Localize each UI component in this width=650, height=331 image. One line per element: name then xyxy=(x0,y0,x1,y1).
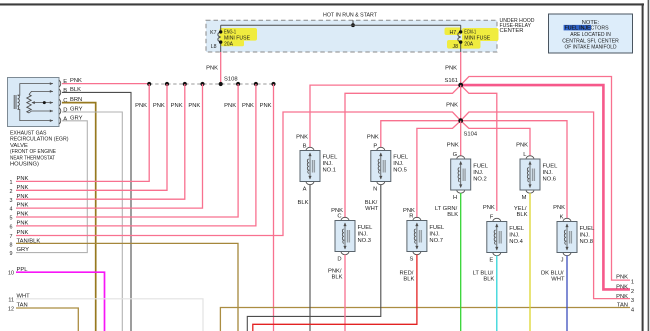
svg-text:H: H xyxy=(453,195,457,201)
wire PNK dot6 to terminal 5 xyxy=(16,84,238,217)
page right border xyxy=(642,3,644,331)
wire EGR A GRY to terminal 9 xyxy=(16,121,87,253)
svg-text:C: C xyxy=(337,213,341,219)
node S104 xyxy=(458,118,463,123)
svg-text:NO.1: NO.1 xyxy=(323,167,337,173)
svg-text:1: 1 xyxy=(10,180,13,186)
page top border xyxy=(0,3,644,5)
svg-text:D: D xyxy=(63,108,67,114)
svg-text:P: P xyxy=(373,143,377,149)
svg-text:FUEL: FUEL xyxy=(358,225,374,231)
label EXHAUST GAS RECIRCULATION (EGR) VALVE xyxy=(10,131,69,168)
svg-text:A: A xyxy=(303,187,307,193)
wire WHT terminal 11 xyxy=(16,299,203,331)
node S108 junction dots xyxy=(147,82,276,86)
fuel injector NO.3 xyxy=(335,217,355,254)
svg-text:NEAR THERMOSTAT: NEAR THERMOSTAT xyxy=(10,156,55,162)
wire DK BLU/WHT injector NO.8 down xyxy=(566,256,568,331)
svg-text:NO.8: NO.8 xyxy=(580,239,594,245)
wire S161 to NO.1 feed xyxy=(310,85,461,147)
wire TAN terminal 12 xyxy=(16,308,78,331)
svg-text:CENTRAL SFI, CENTER: CENTRAL SFI, CENTER xyxy=(562,38,619,44)
svg-text:PNK: PNK xyxy=(224,103,236,109)
svg-text:PNK: PNK xyxy=(17,221,29,227)
svg-text:PNK: PNK xyxy=(616,294,628,300)
wire hot feed stub xyxy=(352,20,354,25)
wire PNK/BLK injector NO.3 down xyxy=(344,255,346,331)
fuel injector NO.8 xyxy=(557,218,577,255)
svg-text:S108: S108 xyxy=(224,77,238,83)
svg-text:PNK: PNK xyxy=(516,143,528,149)
svg-text:FUEL: FUEL xyxy=(323,154,339,160)
svg-text:FUEL: FUEL xyxy=(580,226,596,232)
svg-text:BLK: BLK xyxy=(483,277,494,283)
svg-text:WHT: WHT xyxy=(551,277,565,283)
wire PNK dot7 to terminal 6 xyxy=(16,84,256,226)
highlight ENG-1 fuse xyxy=(220,28,258,41)
svg-text:BLK: BLK xyxy=(403,277,414,283)
svg-text:ARE LOCATED IN: ARE LOCATED IN xyxy=(570,32,611,38)
svg-text:INJ.: INJ. xyxy=(580,233,591,239)
svg-text:PNK: PNK xyxy=(171,103,183,109)
svg-text:2: 2 xyxy=(631,289,634,295)
svg-text:INJ.: INJ. xyxy=(509,233,520,239)
svg-text:PNK: PNK xyxy=(17,203,29,209)
svg-text:6: 6 xyxy=(10,225,13,231)
svg-text:(FRONT OF ENGINE: (FRONT OF ENGINE xyxy=(10,149,56,155)
svg-text:N: N xyxy=(373,187,377,193)
resistor EGR pot zigzag xyxy=(27,95,31,114)
svg-text:B: B xyxy=(63,88,67,94)
svg-text:NO.4: NO.4 xyxy=(509,239,523,245)
wire S104 to NO.5 feed xyxy=(381,121,461,148)
EGR pin chevrons xyxy=(59,80,61,124)
svg-text:7: 7 xyxy=(10,234,13,240)
svg-text:E: E xyxy=(63,79,67,85)
note box xyxy=(549,14,633,53)
svg-text:PNK: PNK xyxy=(17,185,29,191)
svg-text:NO.7: NO.7 xyxy=(429,238,443,244)
svg-text:PNK: PNK xyxy=(153,103,165,109)
wire S161 to NO.4 feed xyxy=(461,85,497,211)
svg-text:S161: S161 xyxy=(444,78,458,84)
wire PNK fuse ENG-1 to splice S108 xyxy=(220,52,222,84)
highlight selected text FUEL INJE xyxy=(564,25,591,31)
svg-text:INJ.: INJ. xyxy=(429,232,440,238)
splice S108 dashed bus xyxy=(149,83,273,85)
svg-text:INJ.: INJ. xyxy=(543,170,554,176)
wire LT BLU/BLK injector NO.4 down xyxy=(496,256,498,331)
wire EGR pot top to pin B xyxy=(29,91,53,94)
fuel injector NO.2 xyxy=(451,156,471,193)
svg-text:PNK: PNK xyxy=(17,176,29,182)
svg-text:F: F xyxy=(490,214,494,220)
svg-text:PNK: PNK xyxy=(260,103,272,109)
svg-text:PNK: PNK xyxy=(445,65,457,71)
EGR solenoid coil xyxy=(18,95,20,109)
wire BLK/WHT injector NO.5 to bottom xyxy=(247,185,380,331)
wire TAN/BLK terminal 8 xyxy=(16,243,238,331)
label PNK column labels under S108 xyxy=(135,103,272,109)
wire EGR D GRY down xyxy=(62,112,122,331)
highlight H7 xyxy=(445,28,462,36)
wire EGR E PNK to S108 xyxy=(62,83,149,85)
wire S104 to NO.7 feed xyxy=(417,121,461,218)
svg-text:3: 3 xyxy=(631,298,634,304)
svg-text:PNK: PNK xyxy=(447,143,459,149)
fuel injector NO.5 xyxy=(371,147,391,184)
svg-text:INJ.: INJ. xyxy=(393,161,404,167)
svg-text:G: G xyxy=(453,152,458,158)
wire PNK dot3 to terminal 3 xyxy=(16,84,185,199)
svg-text:HOUSING): HOUSING) xyxy=(10,162,39,168)
svg-text:PNK: PNK xyxy=(367,134,379,140)
highlight ECM-1 fuse xyxy=(462,28,499,41)
svg-text:PNK: PNK xyxy=(188,103,200,109)
svg-text:HOT IN RUN & START: HOT IN RUN & START xyxy=(323,13,377,19)
svg-text:BLK: BLK xyxy=(517,212,528,218)
svg-text:PNK: PNK xyxy=(135,103,147,109)
svg-text:INJ.: INJ. xyxy=(473,170,484,176)
EGR solenoid core xyxy=(14,95,16,109)
wire PNK dot4 to terminal 4 xyxy=(16,84,203,208)
wire EGR coil to pin E xyxy=(18,84,53,96)
svg-text:NO.3: NO.3 xyxy=(358,238,372,244)
wire EGR B BLK down xyxy=(62,92,131,331)
svg-text:FUEL: FUEL xyxy=(473,164,489,170)
fuel injector NO.1 xyxy=(300,147,320,184)
svg-text:BLK: BLK xyxy=(332,274,343,280)
svg-text:D: D xyxy=(337,257,341,263)
wire S104 to NO.2 feed xyxy=(460,121,462,156)
svg-text:BLK: BLK xyxy=(298,200,309,206)
wire YEL/BLK injector NO.6 down xyxy=(529,193,531,331)
svg-text:5: 5 xyxy=(10,216,13,222)
svg-text:PNK: PNK xyxy=(616,275,628,281)
wire PNK dot8 down to bottom xyxy=(273,84,275,331)
svg-text:8: 8 xyxy=(10,242,13,248)
svg-text:CENTER: CENTER xyxy=(500,28,524,34)
svg-text:INJ.: INJ. xyxy=(358,232,369,238)
svg-text:NO.2: NO.2 xyxy=(473,177,487,183)
node hot bus junction xyxy=(351,23,355,27)
wire PNK dot1 to terminal 1 xyxy=(16,84,149,181)
svg-text:M: M xyxy=(522,195,527,201)
wire hot bus xyxy=(221,24,461,26)
wire S161 to S104 xyxy=(460,85,462,121)
svg-text:FUEL: FUEL xyxy=(509,226,525,232)
svg-text:K7: K7 xyxy=(210,30,216,36)
wire RED/BLK injector NO.7 to bottom xyxy=(253,255,417,331)
wire EGR C BRN down xyxy=(62,103,96,331)
svg-text:PNK: PNK xyxy=(296,134,308,140)
fuel injector NO.4 xyxy=(487,218,507,255)
EGR valve box xyxy=(8,78,60,127)
svg-text:INJ.: INJ. xyxy=(323,161,334,167)
wire PNK fuse ECM-1 to S161 xyxy=(460,52,462,85)
wire S104 to terminal 7 xyxy=(16,112,461,236)
wire S104 to NO.6 feed xyxy=(461,121,530,156)
svg-text:PNK: PNK xyxy=(483,205,495,211)
wire S161 to right terminal PNK 2 thick xyxy=(461,85,630,289)
svg-text:E: E xyxy=(489,258,493,264)
svg-text:GRY: GRY xyxy=(17,247,30,253)
svg-text:PNK: PNK xyxy=(616,284,628,290)
svg-text:20A: 20A xyxy=(224,41,234,47)
wire EGR pot bottom to pin D xyxy=(29,111,53,113)
wire EGR wiper to pin C xyxy=(32,102,53,104)
svg-text:J8: J8 xyxy=(453,44,459,50)
svg-text:R: R xyxy=(409,213,413,219)
svg-text:20A: 20A xyxy=(464,41,474,47)
fuel injector NO.6 xyxy=(520,156,540,193)
svg-text:1: 1 xyxy=(631,280,634,286)
svg-text:PNK: PNK xyxy=(446,102,458,108)
node S161 xyxy=(458,83,463,88)
wire S161 to NO.3 feed xyxy=(345,85,461,218)
svg-text:H7: H7 xyxy=(450,30,457,36)
svg-text:FUEL: FUEL xyxy=(393,154,409,160)
svg-text:10: 10 xyxy=(8,271,14,277)
left connector terminal numbers and labels xyxy=(8,180,14,313)
svg-text:9: 9 xyxy=(10,251,13,257)
svg-text:WHT: WHT xyxy=(365,206,379,212)
svg-text:FUEL: FUEL xyxy=(429,225,445,231)
svg-text:OF INTAKE MANIFOLD: OF INTAKE MANIFOLD xyxy=(565,45,617,51)
wire LT GRN/BLK injector NO.2 down xyxy=(460,193,462,331)
svg-text:TAN: TAN xyxy=(617,302,628,308)
svg-text:PNK: PNK xyxy=(242,103,254,109)
page right outer border xyxy=(648,0,650,331)
wire PPL terminal 10 xyxy=(16,272,105,331)
svg-text:PNK: PNK xyxy=(17,212,29,218)
underhood fuse-relay center box xyxy=(206,20,497,52)
svg-text:BLK: BLK xyxy=(447,212,458,218)
svg-text:PNK: PNK xyxy=(206,65,218,71)
wire TAN terminal 4 right xyxy=(220,308,630,331)
svg-text:RECIRCULATION (EGR): RECIRCULATION (EGR) xyxy=(10,137,69,143)
svg-text:2: 2 xyxy=(10,189,13,195)
wire PNK dot2 to terminal 2 xyxy=(16,84,167,190)
svg-text:FUEL INJE: FUEL INJE xyxy=(565,26,591,32)
fuel injector NO.7 xyxy=(407,217,427,254)
svg-text:B: B xyxy=(303,143,307,149)
wire BLK injector NO.1 down xyxy=(309,185,311,331)
svg-text:EXHAUST GAS: EXHAUST GAS xyxy=(10,131,47,137)
svg-text:4: 4 xyxy=(10,207,13,213)
svg-text:A: A xyxy=(63,116,67,122)
svg-text:S104: S104 xyxy=(464,131,478,137)
wire S104 to right terminal PNK 3 xyxy=(461,112,630,299)
svg-text:NO.6: NO.6 xyxy=(543,177,557,183)
svg-text:PNK: PNK xyxy=(17,194,29,200)
svg-text:K: K xyxy=(560,214,564,220)
svg-text:PNK: PNK xyxy=(553,205,565,211)
wire EGR coil to pin A xyxy=(18,109,53,120)
svg-text:12: 12 xyxy=(8,307,14,313)
svg-text:VALVE: VALVE xyxy=(10,143,28,149)
svg-text:11: 11 xyxy=(8,298,14,304)
wire S104 to NO.8 feed xyxy=(461,121,567,219)
fuse ENG-1 20A xyxy=(218,25,221,52)
svg-text:L8: L8 xyxy=(211,44,217,50)
wire S161 to right terminal PNK 1 xyxy=(461,77,630,281)
fuse ECM-1 20A xyxy=(458,25,461,52)
svg-text:S: S xyxy=(410,257,414,263)
svg-text:NO.5: NO.5 xyxy=(393,167,407,173)
svg-text:J: J xyxy=(561,258,564,264)
svg-text:FUEL: FUEL xyxy=(543,164,559,170)
svg-text:3: 3 xyxy=(10,198,13,204)
